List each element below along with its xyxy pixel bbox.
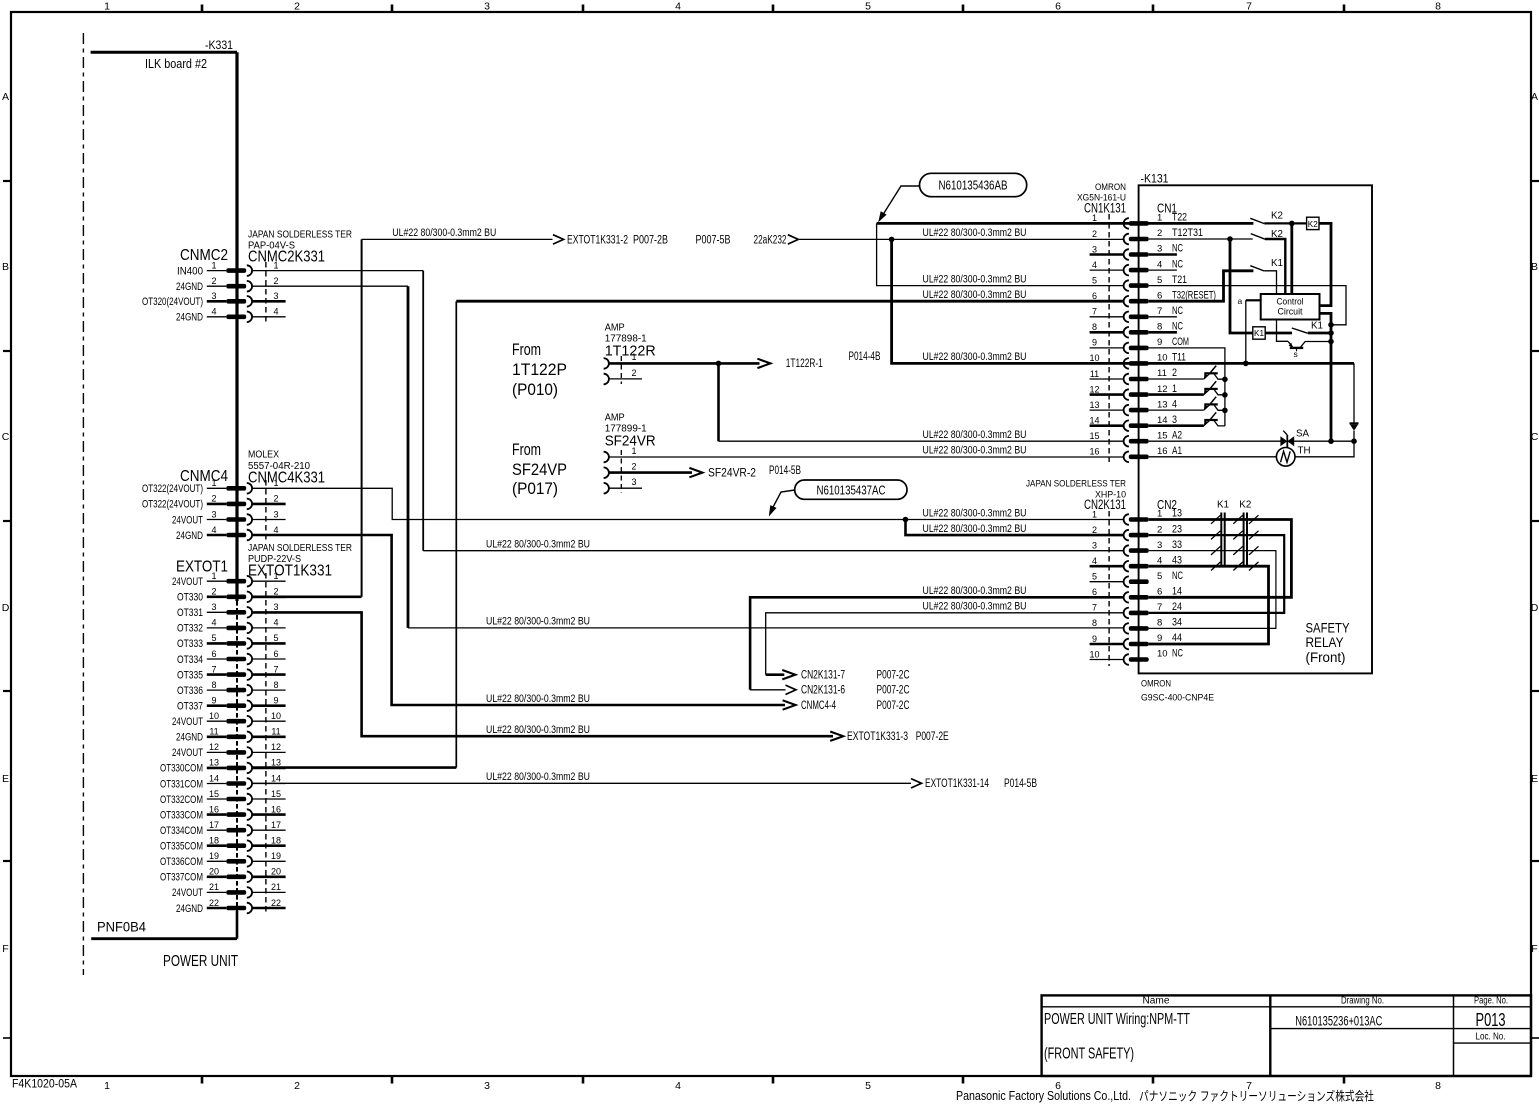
svg-text:5: 5 [1092, 572, 1097, 582]
svg-text:N610135436AB: N610135436AB [939, 178, 1008, 193]
svg-text:AMP: AMP [605, 413, 625, 424]
wire CN2-2 to CN2-7 through contacts [1149, 531, 1285, 613]
wire label UL#22 [923, 273, 1027, 285]
connector CN1K131 pin 11 2 [1090, 367, 1177, 384]
svg-text:1: 1 [104, 1080, 110, 1092]
wire K2a junction to control circuit [1290, 223, 1293, 294]
svg-text:G9SC-400-CNP4E: G9SC-400-CNP4E [1141, 693, 1214, 704]
svg-text:9: 9 [1157, 337, 1162, 348]
svg-text:Circuit: Circuit [1278, 307, 1303, 318]
svg-text:2: 2 [1092, 229, 1097, 239]
connector EXTOT1 pin 14 OT331COM [160, 773, 286, 790]
svg-text:OMRON: OMRON [1095, 182, 1126, 193]
svg-text:OT330COM: OT330COM [160, 763, 203, 775]
svg-text:NC: NC [1172, 258, 1183, 270]
svg-text:15: 15 [1089, 431, 1099, 441]
svg-text:18: 18 [271, 836, 281, 846]
svg-text:1T122R: 1T122R [605, 343, 656, 360]
svg-text:24GND: 24GND [176, 312, 203, 324]
svg-text:22aK232: 22aK232 [754, 234, 787, 246]
svg-text:11: 11 [1157, 368, 1167, 379]
wire label UL#22 [923, 351, 1027, 363]
svg-text:UL#22 80/300-0.3mm2 BU: UL#22 80/300-0.3mm2 BU [486, 539, 590, 551]
svg-text:2: 2 [211, 276, 216, 286]
svg-text:CNMC4-4: CNMC4-4 [801, 700, 836, 712]
connector CN2K131 pin 3 33 [1092, 539, 1182, 556]
svg-text:3: 3 [1172, 414, 1177, 426]
svg-text:8: 8 [1435, 1080, 1441, 1092]
connector CN2K131 pin 6 14 [1092, 586, 1182, 603]
board PNF0B4 label [97, 919, 238, 971]
svg-text:Loc. No.: Loc. No. [1476, 1032, 1506, 1043]
wire CN1-5 T21 to K1 node [1149, 286, 1346, 325]
svg-text:Panasonic Factory Solutions Co: Panasonic Factory Solutions Co.,Ltd. [956, 1088, 1131, 1103]
wire CNMC2-2 to CN2K131-8 [253, 286, 1124, 628]
svg-text:8: 8 [273, 680, 278, 690]
wire CN1-15 A2 [1149, 438, 1357, 444]
wire label UL#22 [486, 693, 590, 705]
svg-text:7: 7 [1092, 307, 1097, 317]
callout N610135436AB [878, 173, 1026, 222]
wire label UL#22 [923, 445, 1027, 457]
svg-text:K2: K2 [1239, 500, 1251, 511]
wire CN2K131-7 reference arrow [766, 613, 1123, 682]
svg-text:A: A [1531, 91, 1538, 103]
svg-text:UL#22 80/300-0.3mm2 BU: UL#22 80/300-0.3mm2 BU [923, 429, 1027, 441]
drawing format number F4K1020-05A [12, 1079, 77, 1091]
svg-text:EXTOT1K331-14: EXTOT1K331-14 [925, 778, 989, 790]
svg-text:AMP: AMP [605, 323, 625, 334]
connector CN2K131 pin 10 NC [1089, 648, 1183, 665]
svg-text:E: E [2, 773, 9, 785]
connector EXTOT1 pin 7 OT335 [177, 664, 286, 681]
svg-text:24GND: 24GND [176, 281, 203, 293]
svg-text:T11: T11 [1172, 352, 1186, 364]
svg-text:SF24VR-2: SF24VR-2 [708, 467, 756, 479]
svg-text:6: 6 [1092, 587, 1097, 597]
connector EXTOT1 pin 12 24VOUT [172, 742, 286, 759]
connector CN2K131 pin 1 13 [1092, 508, 1182, 525]
svg-text:4: 4 [1092, 556, 1097, 566]
wire label UL#22 [486, 539, 590, 551]
connector CNMC2 pin 4 24GND [176, 307, 286, 324]
svg-text:P007-2B: P007-2B [633, 234, 668, 246]
callout N610135437AC [769, 480, 907, 517]
svg-text:P014-5B: P014-5B [1004, 778, 1037, 790]
svg-text:6: 6 [273, 649, 278, 659]
wire T32(RESET) CN1-6 to EXTOT1-13 [253, 301, 1124, 767]
board -K331 outline [83, 33, 237, 975]
wire SF24VR-2 reference arrow [609, 465, 801, 479]
svg-text:3: 3 [484, 1080, 490, 1092]
svg-text:3: 3 [1157, 540, 1162, 551]
svg-text:3: 3 [273, 509, 278, 519]
svg-text:9: 9 [1092, 338, 1097, 348]
svg-text:10: 10 [1089, 353, 1099, 363]
wire label UL#22 [486, 616, 590, 628]
svg-text:F: F [2, 943, 8, 955]
svg-text:SF24VR: SF24VR [605, 433, 656, 450]
connector EXTOT1 pin 2 OT330 [177, 587, 286, 604]
svg-text:1: 1 [1092, 213, 1097, 223]
connector EXTOT1 pin 9 OT337 [177, 696, 286, 713]
svg-text:N610135437AC: N610135437AC [817, 482, 886, 497]
connector CN2K131 pin 9 44 [1090, 632, 1182, 649]
svg-text:-K331: -K331 [205, 40, 233, 52]
connector CNMC4 pin 3 24VOUT [172, 509, 286, 526]
svg-text:1: 1 [211, 478, 216, 488]
svg-text:K1: K1 [1254, 328, 1264, 338]
svg-text:OT333: OT333 [177, 638, 203, 650]
wire T12T31 to boxed K1 [1230, 239, 1253, 333]
wire label UL#22 [392, 227, 496, 239]
svg-text:4: 4 [1157, 259, 1162, 270]
svg-text:JAPAN SOLDERLESS TER: JAPAN SOLDERLESS TER [248, 230, 352, 241]
svg-text:19: 19 [271, 851, 281, 861]
wire label UL#22 [923, 227, 1027, 239]
connector CN1K131 pin 15 A2 [1089, 429, 1182, 446]
connector CN1K131 pin 7 NC [1090, 305, 1184, 322]
svg-text:F4K1020-05A: F4K1020-05A [12, 1079, 77, 1091]
svg-text:7: 7 [1092, 603, 1097, 613]
connector CNMC2 pin 2 24GND [176, 276, 279, 293]
svg-text:OT337COM: OT337COM [160, 872, 203, 884]
connector EXTOT1 pin 16 OT333COM [160, 804, 286, 821]
svg-text:From: From [512, 440, 541, 459]
svg-text:UL#22 80/300-0.3mm2 BU: UL#22 80/300-0.3mm2 BU [486, 724, 590, 736]
contact pair K1 (CN2 side) [1217, 500, 1229, 567]
svg-text:E: E [1531, 773, 1538, 785]
svg-text:パナソニック ファクトリーソリューションズ株式会社: パナソニック ファクトリーソリューションズ株式会社 [1139, 1089, 1374, 1104]
svg-text:4: 4 [273, 525, 278, 535]
connector CN2K131 pin 2 23 [1092, 523, 1182, 540]
svg-text:P014-5B: P014-5B [769, 465, 801, 477]
svg-text:5: 5 [1157, 571, 1162, 582]
svg-text:2: 2 [1157, 524, 1162, 535]
transistor output pin 14 [1149, 412, 1225, 426]
wire label UL#22 [923, 585, 1027, 597]
svg-text:4: 4 [1092, 260, 1097, 270]
wire CNMC4-1 to CN2K131-1 and CN2K131-2 [253, 488, 1124, 535]
connector EXTOT1 pin 15 OT332COM [160, 789, 286, 806]
svg-text:12: 12 [1157, 384, 1168, 395]
svg-text:UL#22 80/300-0.3mm2 BU: UL#22 80/300-0.3mm2 BU [486, 771, 590, 783]
svg-text:IN400: IN400 [177, 265, 203, 277]
svg-text:Name: Name [1143, 995, 1170, 1006]
svg-text:F: F [1531, 943, 1537, 955]
svg-text:P007-5B: P007-5B [696, 234, 731, 246]
connector CN2K131 pin 7 24 [1092, 601, 1182, 618]
svg-text:7: 7 [1246, 1, 1252, 13]
control circuit box [1261, 294, 1320, 320]
thermistor TH [1149, 441, 1354, 466]
svg-text:UL#22 80/300-0.3mm2 BU: UL#22 80/300-0.3mm2 BU [392, 227, 496, 239]
connector CNMC2 pin 3 OT320(24VOUT) [142, 291, 286, 308]
svg-text:10: 10 [1157, 649, 1168, 660]
svg-text:A2: A2 [1172, 429, 1182, 441]
svg-text:16: 16 [1089, 447, 1099, 457]
svg-text:Page. No.: Page. No. [1474, 995, 1508, 1006]
svg-text:14: 14 [1089, 416, 1099, 426]
svg-text:UL#22 80/300-0.3mm2 BU: UL#22 80/300-0.3mm2 BU [923, 523, 1027, 535]
svg-text:4: 4 [675, 1, 681, 13]
contact K1 (upper) [1250, 258, 1283, 271]
svg-text:2: 2 [273, 494, 278, 504]
svg-text:K2: K2 [1308, 219, 1318, 229]
wire label UL#22 [486, 771, 590, 783]
svg-text:13: 13 [1172, 508, 1182, 520]
svg-text:OT336: OT336 [177, 685, 203, 697]
svg-text:3: 3 [211, 291, 216, 301]
svg-text:7: 7 [273, 664, 278, 674]
svg-text:NC: NC [1172, 648, 1183, 660]
connector EXTOT1 pin 17 OT334COM [160, 820, 286, 837]
connector EXTOT1 pin 1 24VOUT [172, 571, 286, 588]
svg-text:EXTOT1: EXTOT1 [176, 559, 228, 576]
svg-text:NC: NC [1172, 321, 1183, 333]
svg-text:OT333COM: OT333COM [160, 809, 203, 821]
svg-text:2: 2 [294, 1080, 300, 1092]
svg-text:EXTOT1K331-2: EXTOT1K331-2 [567, 234, 628, 246]
transistor output pin 13 [1149, 397, 1225, 411]
svg-text:OT337: OT337 [177, 701, 203, 713]
svg-text:CNMC2: CNMC2 [180, 247, 228, 264]
wire CNMC2-1 to CN2K131-3 [253, 271, 1124, 551]
wire CN1-6 T32 up to contact K1 [1149, 271, 1254, 301]
svg-text:2: 2 [631, 462, 636, 472]
svg-text:6: 6 [1157, 290, 1162, 301]
svg-text:9: 9 [1092, 634, 1097, 644]
svg-text:8: 8 [1157, 322, 1162, 333]
contact pair K2 (CN2 side) [1239, 500, 1251, 567]
svg-text:(P010): (P010) [512, 380, 558, 399]
wire EXTOT1K331-2 / 22aK232 net (OT330 - CN1-2 - CN1-10) [253, 234, 1124, 597]
svg-text:24VOUT: 24VOUT [172, 514, 203, 526]
wire T22/T21 loop [877, 223, 1124, 285]
svg-text:UL#22 80/300-0.3mm2 BU: UL#22 80/300-0.3mm2 BU [923, 351, 1027, 363]
connector CN1K131 pin 9 COM [1090, 336, 1189, 353]
svg-text:13: 13 [271, 758, 281, 768]
wire K2b to control circuit [1265, 239, 1285, 294]
connector EXTOT1 pin 5 OT333 [177, 633, 286, 650]
svg-text:34: 34 [1172, 617, 1182, 629]
svg-text:Drawing No.: Drawing No. [1341, 995, 1384, 1006]
svg-text:11: 11 [209, 727, 218, 737]
svg-text:10: 10 [1157, 353, 1168, 364]
connector EXTOT1 pin 20 OT337COM [160, 867, 286, 884]
connector SF24VR (AMP 177899-1) [604, 413, 656, 494]
svg-text:MOLEX: MOLEX [248, 450, 279, 461]
svg-text:16: 16 [271, 804, 281, 814]
svg-text:RELAY: RELAY [1306, 634, 1345, 650]
connector EXTOT1 pin 18 OT335COM [160, 836, 286, 853]
wire COM collector bus [1149, 348, 1228, 426]
svg-text:TH: TH [1298, 444, 1311, 456]
connector CN1K131 pin 10 T11 [1089, 352, 1186, 369]
title block [1042, 995, 1531, 1076]
svg-text:3: 3 [1157, 244, 1162, 255]
svg-text:UL#22 80/300-0.3mm2 BU: UL#22 80/300-0.3mm2 BU [923, 601, 1027, 613]
diode [1350, 363, 1359, 441]
svg-text:12: 12 [271, 742, 281, 752]
svg-text:OT330: OT330 [177, 592, 203, 604]
svg-text:24GND: 24GND [176, 903, 203, 915]
svg-text:T22: T22 [1172, 212, 1187, 224]
connector 1T122R (AMP 177898-1) [604, 323, 656, 385]
wire label UL#22 [486, 724, 590, 736]
svg-text:UL#22 80/300-0.3mm2 BU: UL#22 80/300-0.3mm2 BU [923, 507, 1027, 519]
svg-text:7: 7 [1157, 306, 1162, 317]
connector CN1K131 pin 14 3 [1089, 414, 1177, 431]
boxed label K1 [1253, 327, 1265, 339]
svg-text:UL#22 80/300-0.3mm2 BU: UL#22 80/300-0.3mm2 BU [486, 616, 590, 628]
wire CN2-1 to CN2-6 through contacts [1149, 515, 1292, 597]
svg-text:P007-2C: P007-2C [877, 685, 910, 697]
svg-text:5: 5 [865, 1080, 871, 1092]
connector CN1K131 header (OMRON XG5N-161-U) [1077, 182, 1177, 462]
svg-text:1: 1 [1157, 509, 1162, 520]
svg-text:OT322(24VOUT): OT322(24VOUT) [142, 499, 203, 511]
svg-text:P014-4B: P014-4B [849, 351, 881, 363]
wire CN1-2 T12T31 to contact [1149, 236, 1253, 242]
svg-text:4: 4 [675, 1080, 681, 1092]
svg-text:a: a [1238, 296, 1243, 306]
connector CN1K131 pin 5 T21 [1092, 274, 1187, 291]
connector CN1K131 pin 13 4 [1089, 398, 1177, 415]
svg-text:2: 2 [211, 494, 216, 504]
svg-text:3: 3 [273, 291, 278, 301]
svg-text:21: 21 [209, 882, 219, 892]
svg-text:OT332: OT332 [177, 623, 203, 635]
svg-text:11: 11 [271, 727, 280, 737]
svg-text:7: 7 [211, 664, 216, 674]
svg-text:15: 15 [1157, 430, 1168, 441]
svg-text:CNMC2K331: CNMC2K331 [248, 249, 325, 266]
svg-text:44: 44 [1172, 632, 1182, 644]
svg-text:1: 1 [211, 260, 216, 270]
svg-text:1T122R-1: 1T122R-1 [786, 358, 823, 370]
svg-text:OT331COM: OT331COM [160, 778, 203, 790]
svg-text:14: 14 [209, 773, 219, 783]
connector CNMC4 pin 2 OT322(24VOUT) [142, 494, 286, 511]
svg-text:14: 14 [1157, 415, 1168, 426]
svg-text:s: s [1294, 349, 1298, 359]
svg-text:UL#22 80/300-0.3mm2 BU: UL#22 80/300-0.3mm2 BU [923, 227, 1027, 239]
contact K1 (lower) [1265, 328, 1331, 333]
svg-text:4: 4 [273, 307, 278, 317]
wire CNMC4-4 reference arrow [253, 535, 910, 712]
wire control circuit to K1 bus [1311, 313, 1334, 444]
svg-text:19: 19 [209, 851, 219, 861]
svg-text:1: 1 [631, 446, 636, 456]
svg-text:4: 4 [211, 618, 216, 628]
connector CN2K131 pin 5 NC [1090, 570, 1184, 587]
svg-text:P013: P013 [1476, 1009, 1506, 1030]
wire 1T122R-1 to CN1-15 (A2) with reference arrow [609, 351, 1123, 441]
svg-text:OT336COM: OT336COM [160, 856, 203, 868]
svg-text:24: 24 [1172, 601, 1182, 613]
svg-text:2: 2 [273, 276, 278, 286]
svg-text:3: 3 [211, 602, 216, 612]
svg-text:D: D [1531, 602, 1539, 614]
svg-text:18: 18 [209, 836, 219, 846]
wire label UL#22 [923, 523, 1027, 535]
svg-text:15: 15 [209, 789, 219, 799]
connector CN1K131 pin 6 T32(RESET) [1092, 289, 1216, 306]
svg-text:24VOUT: 24VOUT [172, 747, 203, 759]
svg-text:4: 4 [211, 307, 216, 317]
svg-text:T12T31: T12T31 [1172, 227, 1203, 239]
svg-text:N610135236+013AC: N610135236+013AC [1295, 1013, 1382, 1028]
svg-text:22: 22 [271, 898, 281, 908]
svg-text:NC: NC [1172, 305, 1183, 317]
svg-text:UL#22 80/300-0.3mm2 BU: UL#22 80/300-0.3mm2 BU [923, 585, 1027, 597]
svg-text:14: 14 [1172, 586, 1182, 598]
wire K2 contact to boxed K2 [1264, 221, 1306, 227]
svg-text:17: 17 [271, 820, 281, 830]
svg-text:4: 4 [1157, 555, 1162, 566]
connector EXTOT1 pin 6 OT334 [177, 649, 286, 666]
connector CNMC4 pin 4 24GND [176, 525, 279, 542]
svg-text:P007-2E: P007-2E [916, 731, 949, 743]
svg-text:UL#22 80/300-0.3mm2 BU: UL#22 80/300-0.3mm2 BU [486, 693, 590, 705]
svg-text:2: 2 [211, 587, 216, 597]
svg-text:UL#22 80/300-0.3mm2 BU: UL#22 80/300-0.3mm2 BU [923, 445, 1027, 457]
label From 1T122P (P010) [512, 340, 567, 399]
wire K1 contact to control circuit [1264, 271, 1276, 294]
svg-text:9: 9 [1157, 633, 1162, 644]
node a input [1238, 296, 1261, 306]
svg-text:13: 13 [1157, 399, 1168, 410]
svg-text:13: 13 [209, 758, 219, 768]
svg-text:CN2K131-7: CN2K131-7 [801, 670, 845, 682]
svg-text:CN2K131: CN2K131 [1084, 497, 1126, 512]
svg-text:K1: K1 [1217, 500, 1229, 511]
svg-text:From: From [512, 340, 541, 359]
svg-text:T32(RESET): T32(RESET) [1172, 289, 1216, 301]
svg-text:P007-2C: P007-2C [877, 670, 910, 682]
svg-text:C: C [1531, 431, 1539, 443]
svg-text:5: 5 [1092, 275, 1097, 285]
svg-text:UL#22 80/300-0.3mm2 BU: UL#22 80/300-0.3mm2 BU [923, 289, 1027, 301]
connector CN2K131 pin 4 43 [1090, 554, 1182, 571]
svg-text:B: B [1531, 261, 1538, 273]
svg-text:4: 4 [273, 618, 278, 628]
svg-text:6: 6 [211, 649, 216, 659]
transistor (relay drive) [1277, 320, 1332, 360]
svg-text:5: 5 [273, 633, 278, 643]
svg-text:43: 43 [1172, 554, 1182, 566]
connector EXTOT1 pin 10 24VOUT [172, 711, 286, 728]
svg-text:CN1K131: CN1K131 [1084, 201, 1126, 216]
svg-text:10: 10 [209, 711, 219, 721]
connector CNMC2 pin 1 IN400 [177, 260, 279, 277]
svg-text:CN2K131-6: CN2K131-6 [801, 685, 845, 697]
svg-text:10: 10 [271, 711, 281, 721]
svg-text:5: 5 [865, 1, 871, 13]
svg-text:OT332COM: OT332COM [160, 794, 203, 806]
svg-text:POWER UNIT: POWER UNIT [163, 953, 238, 970]
svg-text:T21: T21 [1172, 274, 1187, 286]
svg-text:8: 8 [1157, 618, 1162, 629]
label OMRON G9SC-400-CNP4E [1141, 679, 1214, 704]
svg-text:3: 3 [484, 1, 490, 13]
footer company name [956, 1088, 1374, 1104]
svg-text:SF24VP: SF24VP [512, 460, 567, 479]
svg-text:4: 4 [1172, 398, 1177, 410]
svg-text:5: 5 [211, 633, 216, 643]
svg-text:K1: K1 [1271, 258, 1283, 269]
